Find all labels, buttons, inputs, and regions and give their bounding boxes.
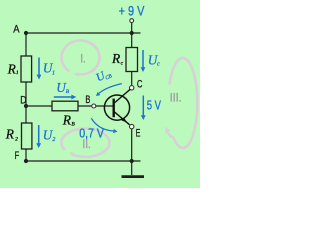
svg-text:E: E <box>136 127 141 139</box>
svg-text:2: 2 <box>15 137 18 143</box>
svg-text:1: 1 <box>16 70 19 76</box>
svg-text:II.: II. <box>83 139 91 151</box>
svg-text:R: R <box>62 112 71 127</box>
svg-text:C: C <box>137 78 143 90</box>
svg-text:5 V: 5 V <box>147 98 162 113</box>
svg-text:R: R <box>111 52 121 67</box>
svg-text:R: R <box>5 128 15 143</box>
svg-text:2: 2 <box>52 137 55 143</box>
svg-text:0,7 V: 0,7 V <box>79 127 104 141</box>
svg-text:F: F <box>15 150 20 162</box>
svg-text:A: A <box>13 23 20 35</box>
svg-text:c: c <box>157 61 160 67</box>
svg-text:D: D <box>20 94 26 106</box>
svg-text:+ 9 V: + 9 V <box>119 3 145 19</box>
svg-text:B: B <box>85 94 90 106</box>
svg-text:1: 1 <box>52 71 55 77</box>
svg-text:R: R <box>7 63 17 78</box>
svg-text:I.: I. <box>80 54 85 66</box>
svg-text:III.: III. <box>170 93 182 105</box>
